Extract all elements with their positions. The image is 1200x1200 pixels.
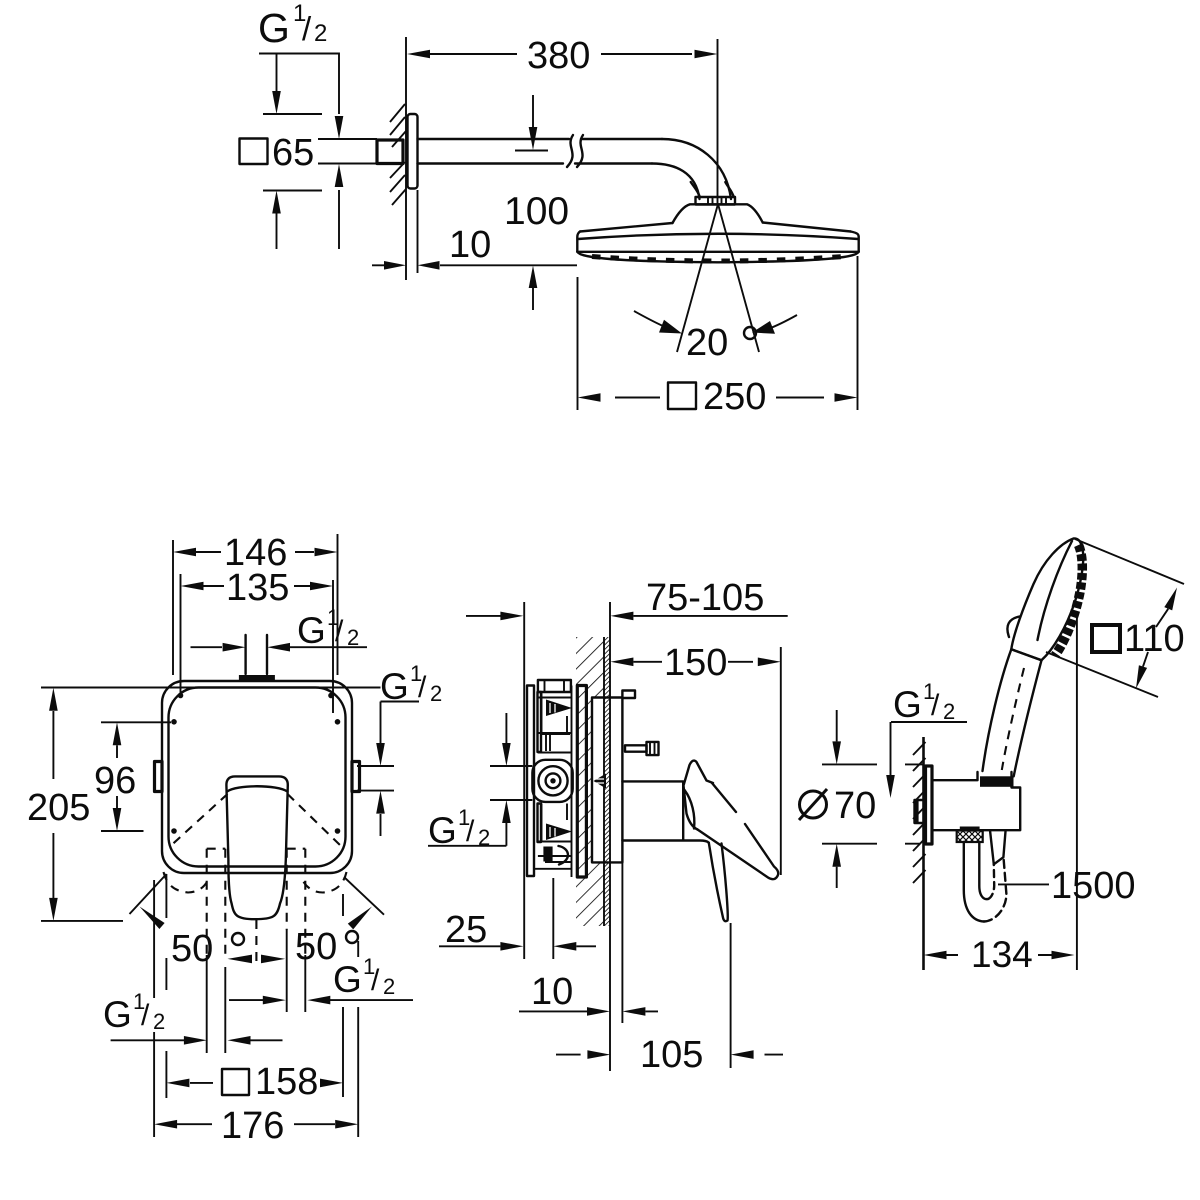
lower dark plug bbox=[543, 847, 552, 862]
svg-text:70: 70 bbox=[834, 785, 876, 827]
lever top inner arc bbox=[227, 786, 287, 791]
G1/2 inlet witness lines bbox=[490, 766, 532, 800]
arm tube bottom line bbox=[418, 162, 653, 164]
wall rough hatch upper part bbox=[576, 637, 604, 926]
holder body bbox=[932, 772, 1020, 830]
20 degree right arrow bbox=[768, 315, 797, 329]
dim 134 bbox=[947, 954, 1052, 956]
svg-text:20: 20 bbox=[686, 322, 728, 364]
svg-text:105: 105 bbox=[640, 1034, 703, 1076]
lever tip extension bbox=[730, 923, 732, 1068]
reference line at head bottom bbox=[522, 264, 577, 266]
svg-text:/: / bbox=[466, 815, 475, 848]
flange face extension down bbox=[417, 190, 419, 273]
cartridge housing bbox=[532, 760, 572, 802]
svg-text:G: G bbox=[333, 959, 362, 1000]
dim 150 bbox=[633, 661, 753, 663]
centerline tick on arm bbox=[515, 150, 548, 152]
upper adjuster triangle bbox=[546, 700, 572, 717]
205 bottom reference line bbox=[41, 920, 123, 922]
square65 witness bottom bbox=[263, 190, 322, 192]
hose outer bbox=[964, 842, 984, 922]
1500 leader bbox=[998, 883, 1049, 885]
svg-text:250: 250 bbox=[703, 376, 766, 418]
union escutcheon bbox=[926, 766, 933, 844]
svg-text:G: G bbox=[893, 684, 922, 725]
G1/2 inlet arrows bbox=[505, 713, 507, 743]
dim 176 bbox=[154, 880, 358, 1137]
bottom port lines right bbox=[287, 849, 306, 955]
valve lower bracket bbox=[538, 804, 542, 843]
dashed swing arc left bbox=[164, 872, 209, 893]
hose inner bbox=[979, 842, 988, 899]
dim 380 line with arrows bbox=[430, 53, 692, 55]
long reference line top of trim bbox=[41, 687, 381, 689]
svg-text:65: 65 bbox=[272, 132, 314, 174]
plate inner square bbox=[169, 688, 346, 867]
head bottom joint line bbox=[1011, 649, 1041, 660]
wall line bbox=[922, 737, 925, 970]
dim Ø70 symbol bbox=[800, 791, 827, 818]
head rim inner line bbox=[578, 234, 858, 239]
lever centerline dashed bbox=[255, 920, 257, 963]
svg-text:380: 380 bbox=[527, 35, 590, 77]
svg-text:/: / bbox=[141, 999, 150, 1032]
handle right edge bbox=[1014, 660, 1042, 776]
arm tube top line bbox=[418, 138, 663, 140]
svg-text:176: 176 bbox=[221, 1105, 284, 1147]
svg-text:/: / bbox=[418, 671, 427, 704]
top port pipe bbox=[246, 635, 267, 674]
svg-text:25: 25 bbox=[445, 909, 487, 951]
dim 100 top arrow at arm centerline bbox=[532, 95, 534, 128]
svg-text:205: 205 bbox=[27, 787, 90, 829]
150 extension line at lever tip bbox=[780, 647, 782, 875]
upper step lines bbox=[540, 734, 570, 751]
G1/2 top port dim arrows bbox=[191, 646, 368, 648]
svg-text:G: G bbox=[297, 610, 326, 651]
Ø70 arrows bbox=[836, 710, 838, 741]
20 degree lines from ball joint bbox=[677, 204, 759, 352]
50deg ray right with arrow bbox=[344, 877, 384, 915]
hand shower centre extension line bbox=[1076, 612, 1078, 970]
svg-text:158: 158 bbox=[255, 1061, 318, 1103]
dim square250 arrows bbox=[615, 397, 824, 399]
thread block square bbox=[377, 140, 403, 164]
dashed swing diagonals bbox=[169, 794, 343, 848]
head mounting platform bbox=[673, 204, 763, 223]
lower band bbox=[538, 842, 571, 857]
svg-text:/: / bbox=[371, 964, 380, 997]
square65 down arrow bbox=[276, 54, 278, 93]
bottom-right port dim bbox=[229, 999, 413, 1001]
110 lower arrow bbox=[1143, 652, 1148, 667]
dim square110 ext line lower bbox=[1046, 652, 1158, 697]
svg-text:10: 10 bbox=[531, 971, 573, 1013]
50deg ray left with arrow bbox=[130, 874, 167, 914]
head top face bbox=[580, 223, 851, 232]
hose dashed inside handle bbox=[1002, 668, 1024, 770]
lever grip blade bbox=[698, 783, 779, 879]
svg-text:/: / bbox=[302, 10, 312, 47]
96 witness lines bbox=[101, 722, 171, 831]
knurled nut bbox=[957, 831, 983, 843]
G1/2 right port leader and arrows bbox=[381, 702, 420, 744]
spray face scalloped band bbox=[1055, 545, 1082, 656]
svg-text:/: / bbox=[931, 689, 940, 722]
G1/2 down arrow to arm top bbox=[335, 116, 344, 139]
lever handle outline bbox=[226, 776, 287, 919]
valve upper bracket bbox=[538, 692, 542, 752]
left side port tab bbox=[155, 762, 163, 792]
wall hatch ticks bbox=[913, 742, 926, 883]
union nipple behind wall bbox=[915, 800, 926, 823]
20 degree left arrow bbox=[634, 311, 663, 326]
svg-text:110: 110 bbox=[1124, 618, 1185, 660]
svg-text:G: G bbox=[103, 994, 132, 1035]
hand shower head outline bbox=[1011, 538, 1083, 660]
valve rear bracket bar bbox=[527, 686, 534, 877]
lever head bbox=[684, 761, 714, 830]
svg-text:1500: 1500 bbox=[1051, 865, 1136, 907]
nozzle dashes bbox=[592, 257, 844, 262]
handle left edge bbox=[983, 649, 1012, 771]
wall hatch ticks above flange bbox=[390, 104, 406, 147]
svg-text:2: 2 bbox=[430, 681, 442, 706]
right port witness lines bbox=[357, 766, 394, 791]
bottom-left port dim bbox=[111, 1039, 283, 1041]
square65 up arrow bbox=[276, 213, 278, 249]
svg-text:135: 135 bbox=[226, 567, 289, 609]
head body outline bbox=[577, 232, 858, 252]
Ø70 witness lines bbox=[822, 764, 923, 843]
extension lines from 65 text to thread block bbox=[318, 139, 377, 164]
valve bottom line bbox=[534, 868, 572, 870]
svg-text:/: / bbox=[335, 615, 344, 648]
svg-text:100: 100 bbox=[504, 190, 569, 233]
svg-text:96: 96 bbox=[94, 760, 136, 802]
svg-text:75-105: 75-105 bbox=[646, 577, 764, 619]
shower head ball nut bbox=[691, 182, 734, 197]
angle double arrow bbox=[228, 955, 253, 964]
head face divider line bbox=[1038, 541, 1073, 640]
dim 100 bottom arrow pointing up to head bottom bbox=[532, 288, 534, 310]
trim sleeve escutcheon bbox=[622, 781, 708, 842]
dim square158 bbox=[166, 874, 343, 1098]
svg-text:134: 134 bbox=[971, 934, 1033, 975]
plate outer square bbox=[162, 681, 352, 873]
G1/2 up arrow shaft below bbox=[338, 190, 340, 249]
146 extension lines bbox=[173, 534, 338, 675]
plaster depth marker triangle bbox=[594, 774, 607, 789]
wall hatch ticks below flange bbox=[390, 162, 406, 205]
square symbol 65 bbox=[240, 139, 268, 165]
lower adjuster triangle bbox=[546, 824, 572, 841]
right side port tab bbox=[352, 762, 360, 792]
shower connector in cradle bbox=[980, 776, 1014, 787]
bottom ports hidden dashed caps bbox=[207, 848, 306, 850]
square symbol 110 bbox=[1092, 625, 1120, 652]
wall face line bbox=[603, 637, 605, 926]
dim square250 extension lines bbox=[578, 256, 858, 410]
mounting plate bbox=[577, 686, 586, 878]
bottom port lines left bbox=[207, 849, 226, 955]
sleeve top-right collar bbox=[622, 691, 635, 699]
wall vertical line bbox=[405, 37, 407, 280]
wall tile dark band bbox=[604, 637, 610, 926]
hose guide outlet bbox=[990, 830, 1006, 864]
svg-text:2: 2 bbox=[943, 699, 955, 724]
lever inner detail bbox=[685, 790, 695, 829]
arm bend outer bbox=[662, 139, 731, 199]
svg-text:10: 10 bbox=[449, 224, 491, 266]
cartridge plane extension bbox=[552, 878, 554, 959]
stop screw bbox=[625, 745, 647, 751]
svg-text:2: 2 bbox=[383, 974, 395, 999]
G1/2 union leader bbox=[891, 722, 968, 775]
centerline extension of head bbox=[717, 39, 719, 204]
spray button bump bbox=[1007, 617, 1019, 638]
lower arc detail bbox=[559, 846, 568, 865]
110 upper arrow bbox=[1156, 609, 1168, 627]
svg-text:2: 2 bbox=[153, 1009, 165, 1034]
arm break squiggle bbox=[567, 135, 583, 167]
cartridge rings bbox=[538, 766, 567, 795]
top port cap bbox=[239, 675, 275, 682]
valve front face line bbox=[571, 686, 573, 878]
valve rear reference line bbox=[523, 602, 525, 959]
rough-in protection sleeve bbox=[592, 698, 622, 863]
screw dots bbox=[178, 693, 184, 699]
wall flange bbox=[408, 114, 418, 189]
svg-text:G: G bbox=[258, 5, 290, 51]
wall surface reference line bbox=[609, 602, 611, 1071]
head spray face curve bbox=[577, 252, 858, 262]
head bottom rim line bbox=[577, 251, 858, 253]
svg-text:150: 150 bbox=[664, 642, 727, 684]
valve top cap bbox=[538, 680, 571, 692]
svg-text:50: 50 bbox=[295, 926, 337, 968]
square symbol 250 bbox=[668, 383, 696, 410]
135 extension lines bbox=[181, 574, 334, 713]
G1/2 bracket line bbox=[259, 54, 339, 115]
dashed swing arc right bbox=[303, 872, 347, 893]
square65 witness top bbox=[263, 113, 322, 115]
dim square110 ext line upper bbox=[1075, 539, 1184, 584]
lever lower thin blade bbox=[709, 843, 728, 921]
sleeve face extension line bbox=[621, 690, 623, 1023]
dim 10 arrows bbox=[372, 264, 522, 266]
arm bend inner bbox=[652, 164, 700, 200]
knurled nut cap bbox=[960, 827, 980, 831]
svg-text:2: 2 bbox=[314, 20, 327, 47]
